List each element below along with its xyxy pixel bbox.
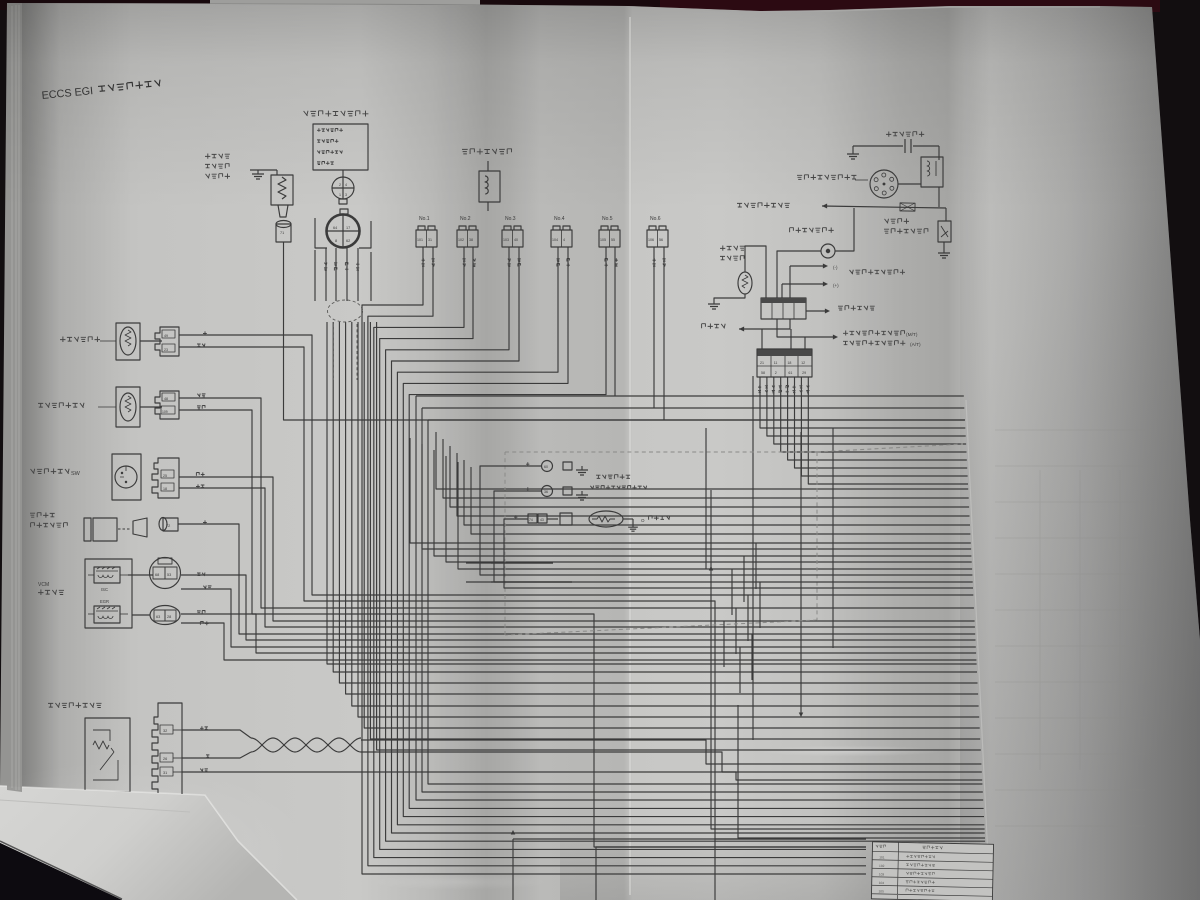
- svg-text:104: 104: [552, 238, 558, 242]
- wire injector 10 drop: [614, 247, 616, 396]
- wire injector 12 drop: [663, 247, 665, 420]
- svg-text:(A/T): (A/T): [910, 342, 921, 348]
- fold ridge highlights: [629, 17, 631, 895]
- title: ECCS EGI harness circuit diagram: [41, 79, 161, 102]
- svg-text:49: 49: [164, 334, 168, 338]
- label neutral relay: [843, 341, 905, 346]
- wire injector 9: [409, 247, 983, 808]
- crank angle sensor legend box: [313, 124, 368, 170]
- ghost print show-through on back panel: [995, 430, 1145, 826]
- wire crank bundle 1: [327, 322, 977, 664]
- wire (+) speed sensor: [782, 283, 824, 285]
- wire ECU pin 3: [774, 377, 966, 444]
- svg-text:61: 61: [788, 371, 792, 375]
- svg-text:No.1: No.1: [419, 216, 430, 222]
- label power transistor: [885, 219, 910, 224]
- label distributor: [797, 175, 856, 180]
- svg-text:101: 101: [417, 238, 423, 242]
- connector wing left: [315, 218, 327, 248]
- svg-text:2: 2: [339, 183, 341, 187]
- wire from left component y=347: [179, 347, 866, 839]
- svg-text:38: 38: [469, 238, 473, 242]
- wire merge stub x=760: [759, 582, 761, 628]
- wire runner x833: [832, 428, 834, 648]
- wire injector 3: [374, 247, 866, 858]
- svg-text:12: 12: [801, 361, 805, 365]
- svg-text:O: O: [641, 518, 645, 523]
- wire long row y=408: [422, 407, 964, 409]
- wire crank bundle 3: [339, 322, 977, 683]
- wire mid row y=562: [446, 456, 972, 562]
- air flow meter connector: [152, 703, 182, 795]
- thermal transmitter tip: [278, 205, 288, 217]
- ISC coil: [94, 567, 120, 583]
- svg-text:SW: SW: [71, 471, 81, 477]
- wire crank bundle 7: [364, 322, 980, 728]
- svg-text:No.2: No.2: [460, 216, 471, 222]
- wire injector 11 drop: [653, 247, 655, 408]
- water temp connector: [155, 327, 179, 356]
- wire mid row y=556: [434, 450, 971, 556]
- svg-text:ISC: ISC: [101, 587, 108, 592]
- twisted pair braid: [251, 738, 361, 752]
- svg-text:No.6: No.6: [650, 216, 661, 222]
- wire to water temp gauge: [739, 326, 744, 331]
- svg-text:103: 103: [879, 872, 885, 876]
- svg-text:No.3: No.3: [505, 216, 516, 222]
- wire color labels No.4: [557, 259, 560, 267]
- crank sensor small connector: [332, 177, 354, 199]
- label crank angle sensor: [304, 111, 369, 117]
- svg-text:No.5: No.5: [602, 216, 613, 222]
- wire injector 7: [397, 247, 984, 825]
- wire airflow 1 cont: [361, 740, 981, 764]
- wire O2 sensor row: [504, 519, 973, 588]
- wire mid bus y=516: [457, 453, 970, 516]
- paper top edge highlight: [680, 7, 1100, 12]
- svg-text:4: 4: [345, 183, 347, 187]
- wire from left component y=477: [179, 477, 975, 621]
- svg-text:58: 58: [761, 371, 765, 375]
- wire mid row y=569: [458, 462, 972, 569]
- svg-text:72: 72: [166, 524, 170, 528]
- ECU harness connector block: [757, 349, 812, 356]
- wire ECU pin 7: [801, 377, 967, 476]
- svg-text:106: 106: [648, 238, 654, 242]
- wire (-) speed sensor: [790, 265, 824, 267]
- injector coil symbol: [487, 161, 489, 171]
- wire injector 8: [403, 247, 984, 817]
- aircon connector 72: [159, 518, 167, 531]
- wire runner x801: [800, 432, 802, 713]
- wire mid bus y=498: [443, 439, 969, 498]
- wire mid bus y=534: [471, 467, 970, 534]
- wire color labels No.2: [463, 259, 466, 267]
- wire crank bundle 9: [377, 322, 981, 750]
- wire runner x706: [705, 428, 707, 569]
- svg-text:21: 21: [760, 361, 764, 365]
- svg-text:(M/T): (M/T): [906, 332, 918, 338]
- label inst harness: [737, 203, 790, 208]
- wire ECU pin 4: [781, 377, 967, 452]
- wire injector 11 lower: [422, 408, 983, 792]
- wire crank bundle 2: [333, 322, 977, 672]
- svg-text:36: 36: [544, 490, 548, 494]
- wire color labels No.5: [605, 259, 608, 267]
- label exhaust temp sensor: [720, 246, 745, 251]
- black table corner bottom-left: [0, 843, 122, 900]
- svg-text:71: 71: [280, 231, 284, 235]
- wire airflow 1: [182, 730, 251, 738]
- ground for thermal transmitter: [250, 169, 277, 171]
- wire ECU pin 6: [795, 377, 968, 468]
- wire sensor to ground: [714, 294, 745, 300]
- label aircon compressor: [30, 513, 55, 518]
- wire to inst harness with fuse: [822, 203, 827, 208]
- wire injector 2: [368, 247, 866, 866]
- wire ECU pin 5: [788, 377, 967, 460]
- dashed line to fold: [817, 444, 963, 452]
- svg-text:68: 68: [155, 573, 159, 577]
- ISC connector circle 68/53: [150, 558, 181, 589]
- svg-text:26: 26: [163, 757, 167, 761]
- wire from left component y=614: [181, 614, 976, 653]
- wire airflow 2 cont: [361, 752, 982, 772]
- wire injector 12 lower: [428, 420, 982, 784]
- svg-text:102: 102: [458, 238, 464, 242]
- wire runner x738: [738, 705, 985, 838]
- water temp sensor: [116, 323, 140, 360]
- label condenser: [886, 132, 924, 137]
- svg-text:17: 17: [346, 226, 350, 230]
- wire crank pin x=336: [335, 248, 337, 301]
- svg-text:40: 40: [514, 238, 518, 242]
- svg-text:25: 25: [163, 474, 167, 478]
- throttle connector: [152, 458, 179, 498]
- wire to block b: [781, 284, 783, 298]
- wires inside vcm rows: [128, 574, 153, 576]
- label water temp sensor: [60, 337, 100, 343]
- exhaust temp sensor: [738, 272, 752, 294]
- wire mid row y=543: [410, 438, 971, 543]
- wire crank pin x=326: [325, 248, 327, 301]
- svg-text:23: 23: [164, 348, 168, 352]
- wire color labels No.1: [422, 258, 425, 266]
- wire merge stub x=752: [751, 634, 753, 680]
- svg-text:48: 48: [164, 397, 168, 401]
- wire injector 1: [362, 247, 866, 874]
- wire airflow 2: [182, 752, 251, 758]
- wires above ECU block: [761, 329, 763, 349]
- svg-text:18: 18: [787, 361, 791, 365]
- EGR connector oval 63/28: [150, 606, 180, 625]
- wire from left component y=488: [179, 488, 975, 627]
- connector T1: [276, 221, 291, 228]
- svg-text:55: 55: [611, 238, 615, 242]
- svg-text:3: 3: [345, 193, 347, 197]
- svg-text:11: 11: [774, 361, 778, 365]
- label air regulator: [38, 403, 84, 409]
- wire crank bundle 8: [370, 322, 980, 739]
- distributor: [870, 170, 898, 198]
- svg-text:102: 102: [879, 864, 885, 868]
- svg-text:53: 53: [167, 573, 171, 577]
- svg-text:56: 56: [659, 238, 663, 242]
- wire crank bundle 4: [346, 322, 979, 694]
- svg-text:28: 28: [167, 615, 171, 619]
- wire injector 6: [392, 247, 985, 833]
- svg-text:32: 32: [163, 729, 167, 733]
- svg-text:103: 103: [503, 238, 509, 242]
- svg-text:74: 74: [529, 518, 533, 522]
- wire color labels No.3: [508, 259, 511, 267]
- wire from left component y=398: [179, 398, 974, 608]
- wire mid bus y=489: [436, 432, 968, 489]
- svg-text:EGR: EGR: [100, 599, 109, 604]
- svg-text:2: 2: [775, 371, 777, 375]
- book page edges left binding: [7, 4, 22, 792]
- wire from left component y=524: [178, 524, 975, 634]
- label thermal transmitter: [205, 154, 230, 159]
- wire from left component y=410: [179, 410, 866, 847]
- svg-text:63: 63: [156, 615, 160, 619]
- svg-text:31: 31: [163, 771, 167, 775]
- label VCM valve: [38, 590, 64, 596]
- condenser circuit: [847, 150, 859, 159]
- wire color labels No.6: [653, 258, 656, 266]
- svg-text:64: 64: [333, 226, 337, 230]
- air regulator: [116, 387, 140, 427]
- svg-text:109: 109: [162, 410, 168, 414]
- svg-text:(+): (+): [833, 283, 839, 288]
- wire merge stub x=732: [731, 569, 733, 615]
- wire to block a: [789, 266, 791, 298]
- wire mid bus y=525: [464, 460, 970, 525]
- wire merge stub x=756: [755, 543, 757, 589]
- wire to neutral SW: [777, 319, 834, 337]
- svg-text:4: 4: [563, 238, 565, 242]
- wire exit x596: [595, 847, 597, 900]
- label engine earth: [596, 474, 630, 479]
- wire crank pin x=358: [357, 248, 359, 301]
- wire airflow 3: [182, 772, 982, 780]
- terminal table: [871, 842, 993, 900]
- wire from left component y=623: [181, 623, 976, 660]
- wire crank bundle 6: [358, 322, 979, 717]
- other page edge visible at top: [210, 0, 480, 5]
- svg-text:VCM: VCM: [38, 582, 49, 588]
- EGR coil: [94, 606, 120, 623]
- conduit dashed ellipse: [328, 300, 363, 322]
- label throttle valve SW: [31, 469, 70, 475]
- wire labels air flow: [200, 726, 208, 730]
- wire to aircon SW: [806, 310, 826, 312]
- wire labels water temp: [203, 331, 207, 335]
- wire from left component y=575: [181, 575, 976, 640]
- wire long row y=396: [416, 395, 964, 397]
- wire ECU pin 2: [767, 377, 966, 436]
- wire engine earth 2: [494, 491, 973, 582]
- crank sensor main connector (bold circle): [340, 209, 348, 214]
- wire crank wing L: [314, 250, 316, 301]
- svg-text:31: 31: [428, 238, 432, 242]
- wire mid bus y=507: [450, 446, 969, 507]
- wire legend to small connector: [342, 170, 344, 177]
- svg-text:105: 105: [878, 889, 884, 893]
- wire from left component y=589: [181, 589, 976, 647]
- wire runner x753: [752, 376, 754, 740]
- throttle valve switch: [112, 454, 141, 500]
- underlying book pages bottom-left: [0, 786, 297, 900]
- label exhaust temp warning lamp: [790, 228, 834, 233]
- wire ECU pin 1: [760, 377, 965, 428]
- wire exit x715: [714, 839, 716, 900]
- power transistor: [938, 221, 951, 242]
- svg-text:18: 18: [163, 487, 167, 491]
- small connector block: [761, 298, 806, 319]
- dashed boundary box engine earth: [505, 452, 817, 635]
- svg-text:(-): (-): [833, 265, 838, 270]
- wire crank bundle 5: [352, 322, 979, 706]
- warning lamp: [821, 244, 835, 258]
- wire injector 10 lower: [416, 396, 983, 800]
- wire lamp up: [835, 208, 854, 251]
- wire exit x513: [512, 839, 514, 900]
- svg-text:29: 29: [802, 371, 806, 375]
- wire merge stub x=740: [739, 647, 741, 693]
- wire merge stub x=744: [743, 556, 745, 602]
- wire from left component y=335: [179, 335, 973, 595]
- label speed sensor: [850, 270, 906, 275]
- wire ECU pin 8: [808, 377, 968, 484]
- wire T1 vertical + row: [284, 242, 965, 420]
- wire long row y=420: [428, 419, 965, 421]
- thermal transmitter body with resistor: [276, 170, 278, 175]
- wire merge stub x=724: [723, 621, 725, 667]
- wire sensor to block: [745, 246, 766, 298]
- label air flow meter: [48, 703, 102, 709]
- svg-text:104: 104: [879, 881, 885, 885]
- svg-text:43: 43: [540, 518, 544, 522]
- wire crank pin x=347: [346, 248, 348, 301]
- svg-text:1: 1: [339, 193, 341, 197]
- wire injector 5: [386, 247, 986, 841]
- svg-text:No.4: No.4: [554, 216, 565, 222]
- ignition coil box: [921, 157, 943, 187]
- svg-text:62: 62: [346, 239, 350, 243]
- svg-text:101: 101: [879, 855, 885, 859]
- connector wing right: [359, 221, 371, 248]
- svg-text:105: 105: [600, 238, 606, 242]
- wire mid row y=549: [422, 444, 971, 549]
- air flow meter body: [85, 718, 130, 792]
- aircon compressor: [84, 518, 91, 541]
- svg-text:60: 60: [544, 465, 548, 469]
- wire color labels below crank connector: [324, 263, 327, 271]
- fuse symbol: [900, 203, 915, 211]
- wire engine earth 1: [480, 466, 972, 575]
- wire crank wing R: [370, 252, 372, 301]
- label injector: [462, 149, 512, 155]
- wire injector 4: [380, 247, 866, 849]
- svg-text:8: 8: [335, 239, 337, 243]
- wire runner x711: [711, 490, 985, 829]
- wire merge stub x=736: [735, 608, 737, 654]
- wire lamp to block: [777, 251, 821, 298]
- air regulator connector: [155, 391, 179, 419]
- wire merge stub x=748: [747, 595, 749, 641]
- VCM valve assembly: [85, 559, 132, 628]
